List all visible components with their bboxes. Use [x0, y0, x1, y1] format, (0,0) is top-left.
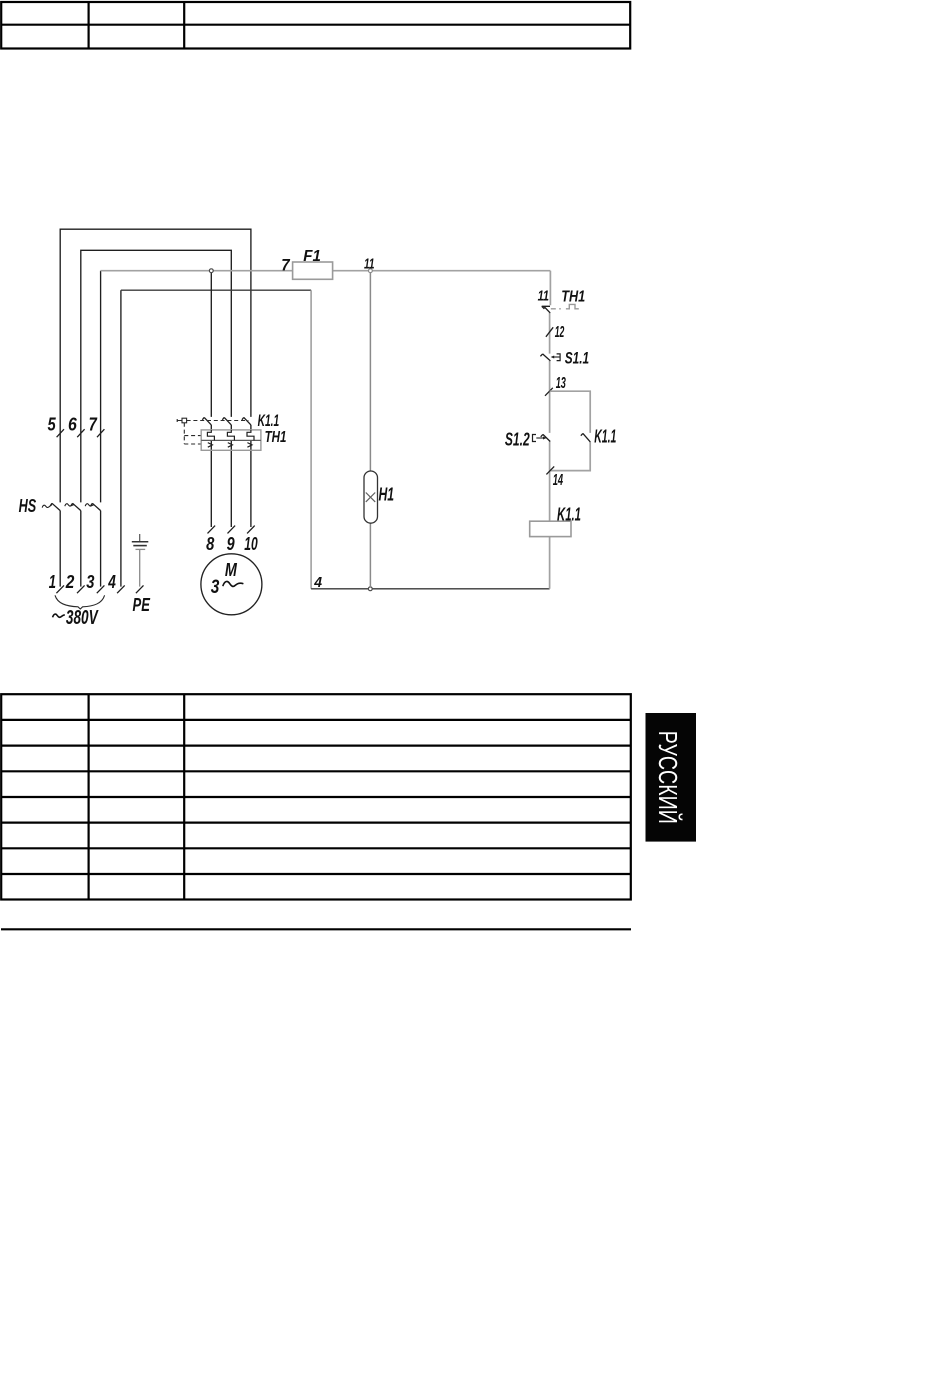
- svg-text:1: 1: [49, 572, 56, 592]
- wire: phase drop to terminal 9: [230, 425, 232, 527]
- switch HS linkage waves: [42, 504, 94, 508]
- svg-text:F1: F1: [303, 248, 321, 265]
- svg-text:TH1: TH1: [561, 289, 585, 306]
- actuator tick: [177, 419, 182, 422]
- control rail segments: [549, 271, 552, 589]
- svg-text:3: 3: [211, 577, 220, 598]
- terminal slash 7: [97, 429, 104, 437]
- svg-text:M: M: [225, 560, 238, 580]
- svg-text:7: 7: [281, 255, 291, 274]
- svg-text:TH1: TH1: [265, 429, 287, 446]
- node 11: lamp branch junction: [369, 269, 373, 273]
- terminal slash 14: [546, 466, 554, 474]
- svg-text:12: 12: [555, 324, 565, 341]
- lamp H1 cross: [366, 493, 375, 502]
- terminal slash 13: [545, 388, 553, 396]
- ground PE symbol: [139, 534, 141, 541]
- K1.1 auxiliary contact: [581, 433, 590, 442]
- wire: control return vertical x=311: [310, 290, 312, 589]
- terminal slash 5: [57, 429, 64, 437]
- label ~380V: [53, 614, 65, 617]
- wire: phase L1 top loop (line 1): [59, 511, 61, 587]
- svg-text:10: 10: [244, 534, 257, 554]
- pushbutton S1.1 (NC) blade: [540, 354, 550, 361]
- terminal slash 2: [77, 585, 85, 593]
- wire: phase drop to terminal 8: [210, 273, 212, 528]
- heater element pole 2: [227, 430, 234, 440]
- svg-text:6: 6: [68, 415, 78, 435]
- svg-text:РУССКИЙ: РУССКИЙ: [653, 731, 683, 824]
- brace under terminals 1-3: [55, 595, 105, 609]
- node: junction on line 3 at x=211: [209, 269, 213, 273]
- motor M 3~: [201, 554, 262, 615]
- S1.1 actuator arrow: [554, 356, 560, 358]
- wire: phase drop to terminal 10: [250, 425, 252, 527]
- switch HS blade pole 2: [71, 503, 81, 510]
- TH1 thermal linkage + pulse symbol: [551, 308, 561, 310]
- chevron pole 1: [208, 443, 213, 448]
- wire: phase L2 top loop (line 2): [80, 511, 82, 587]
- svg-text:13: 13: [556, 375, 566, 392]
- svg-text:11: 11: [538, 288, 549, 305]
- svg-text:S1.1: S1.1: [565, 348, 589, 367]
- S1.2 actuator bracket: [533, 435, 537, 442]
- svg-text:3: 3: [86, 572, 94, 592]
- contactor K1.1 main contact pole 2: [222, 417, 231, 425]
- top table: [1, 2, 630, 49]
- terminal slash 12: [546, 327, 553, 337]
- terminal slash PE: [136, 585, 144, 593]
- svg-text:11: 11: [364, 257, 375, 273]
- language tab РУССКИЙ: [646, 713, 697, 842]
- svg-text:4: 4: [108, 572, 116, 592]
- pushbutton S1.2 (NO) blade: [541, 434, 551, 441]
- contactor K1.1 main contact pole 3: [242, 417, 251, 425]
- switch HS blade pole 1: [50, 503, 60, 510]
- contactor K1.1 main contact pole 1: [202, 417, 211, 425]
- wire: line 4 horizontal (neutral to control return): [121, 289, 311, 291]
- svg-text:2: 2: [65, 572, 74, 592]
- switch HS blade pole 3: [91, 503, 101, 510]
- dashed link to TH1: [184, 423, 201, 444]
- heater element pole 3: [247, 430, 254, 440]
- svg-text:7: 7: [89, 415, 98, 435]
- wire: PE conductor: [139, 549, 141, 586]
- lamp H1 branch wire upper: [369, 273, 371, 471]
- svg-text:H1: H1: [379, 485, 395, 505]
- wire: line 3 horizontal (net 7 to control rail): [101, 270, 551, 272]
- terminal slash 4: [117, 585, 125, 593]
- wire: bottom rail (net 4): [311, 588, 549, 590]
- chevron pole 2: [228, 443, 233, 448]
- svg-text:14: 14: [553, 472, 563, 489]
- svg-text:K1.1: K1.1: [258, 411, 280, 430]
- wire: phase L3 left vertical: [100, 511, 102, 587]
- svg-text:PE: PE: [133, 595, 151, 615]
- svg-text:S1.2: S1.2: [505, 430, 530, 450]
- svg-text:9: 9: [227, 534, 235, 554]
- relay coil K1.1: [530, 521, 571, 536]
- TH1 NC contact: [542, 306, 551, 313]
- svg-text:4: 4: [313, 574, 322, 591]
- terminal slash 9: [228, 526, 236, 534]
- terminal slash 1: [56, 585, 64, 593]
- actuator square of K1.1: [182, 418, 187, 423]
- terminal slash 8: [208, 526, 216, 534]
- S1.1 actuator bracket: [557, 354, 561, 361]
- svg-text:8: 8: [206, 534, 214, 554]
- svg-text:380V: 380V: [66, 607, 99, 629]
- dashed linkage K1.1: [187, 420, 249, 422]
- svg-text:HS: HS: [19, 496, 37, 516]
- lamp H1 body: [364, 471, 378, 523]
- thermal relay TH1 box: [201, 430, 261, 450]
- terminal slash 3: [97, 585, 105, 593]
- lamp H1 branch wire lower: [369, 523, 371, 587]
- bottom table: [1, 694, 631, 899]
- terminal slash 6: [77, 429, 84, 437]
- svg-text:5: 5: [48, 415, 57, 435]
- heater element pole 1: [207, 430, 214, 440]
- node: bottom rail lamp junction: [368, 587, 372, 591]
- svg-text:K1.1: K1.1: [557, 505, 581, 525]
- footer rule: [1, 928, 631, 930]
- wire: neutral N vertical (terminal 4): [120, 290, 122, 586]
- chevron pole 3: [247, 443, 252, 448]
- fuse F1: [293, 262, 333, 279]
- wire: holding branch loop: [550, 391, 591, 470]
- terminal slash 10: [247, 526, 255, 534]
- S1.2 actuator arrow: [536, 437, 543, 439]
- svg-text:K1.1: K1.1: [594, 426, 616, 446]
